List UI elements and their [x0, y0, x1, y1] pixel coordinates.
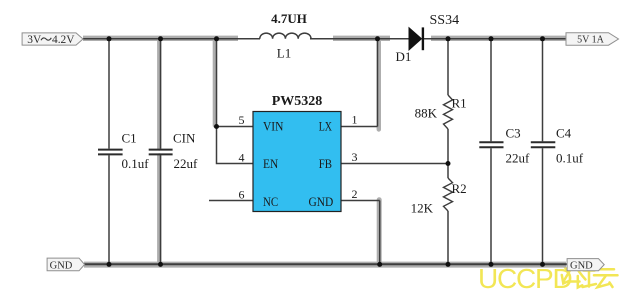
wire NC stub pin 6: [209, 200, 253, 202]
node IC GND bottom: [377, 262, 382, 267]
wire between R1 and R2: [447, 129, 449, 178]
node C3 bottom: [489, 262, 494, 267]
wire CIN vertical grey upper: [157, 39, 161, 149]
diode D1: [409, 28, 422, 50]
node CIN top: [158, 36, 163, 41]
node D1 cathode: [446, 36, 451, 41]
svg-text:PW5328: PW5328: [272, 94, 323, 109]
node C1 top: [107, 36, 112, 41]
wire EN: down from VIN junction then right to pin 4: [217, 127, 254, 164]
svg-text:SS34: SS34: [430, 13, 460, 28]
wire GND pin vertical grey: [377, 200, 382, 264]
wire LX vertical grey: [377, 39, 381, 130]
svg-text:5: 5: [239, 113, 245, 127]
wire top rail dark: D1 cathode to 5V tag: [423, 38, 567, 40]
wire top rail dark: L1 to D1 anode: [310, 38, 409, 40]
node CIN bottom: [158, 262, 163, 267]
wire CIN vertical lower dark: [160, 155, 162, 264]
svg-text:4.7UH: 4.7UH: [271, 11, 307, 26]
node C4 bottom: [540, 262, 545, 267]
svg-text:EN: EN: [263, 156, 279, 171]
svg-text:22uf: 22uf: [174, 156, 199, 171]
svg-text:R1: R1: [452, 96, 467, 111]
wire top rail dark: tag to L1: [83, 38, 260, 40]
node C1 bottom: [107, 262, 112, 267]
wire CIN vertical upper dark: [160, 39, 162, 149]
wire VIN horizontal to pin 5: [217, 126, 254, 128]
svg-text:GND: GND: [570, 261, 593, 272]
wire GND pin vertical dark: [379, 201, 381, 265]
wire VIN vertical dark: [216, 39, 218, 127]
capacitor C1: [98, 150, 123, 155]
node FB divider junction: [446, 161, 451, 166]
svg-text:R2: R2: [452, 181, 467, 196]
wire top rail grey right (D1 to 5V tag): [431, 36, 566, 41]
论 roof: [564, 263, 586, 281]
wire bottom rail grey: [84, 262, 566, 268]
svg-text:2: 2: [352, 187, 358, 201]
capacitor CIN: [149, 150, 173, 155]
svg-text:CIN: CIN: [173, 131, 196, 146]
port tag 5V 1A: [566, 33, 619, 46]
port tag GND left: [47, 258, 85, 271]
port tag GND right: [567, 259, 604, 272]
wire bottom rail dark: [84, 263, 567, 265]
svg-text:C4: C4: [556, 126, 572, 141]
svg-text:LX: LX: [319, 118, 333, 133]
resistor R1: [444, 95, 453, 129]
dark wires: [83, 39, 567, 265]
wire C4 vertical upper: [542, 39, 544, 142]
net highlight (grey) segments: [83, 38, 566, 264]
wire C3 vertical lower: [490, 148, 492, 264]
svg-text:4.2V: 4.2V: [52, 34, 75, 46]
node VIN-EN junction: [214, 124, 219, 129]
svg-text:3: 3: [352, 150, 358, 164]
watermark UCCPD论坛: [478, 263, 618, 290]
wire top rail grey left: [83, 36, 238, 41]
IC U1 PW5328: [253, 112, 341, 212]
svg-text:0.1uf: 0.1uf: [122, 156, 150, 171]
wire below R2: [447, 211, 449, 265]
node C4 top: [540, 36, 545, 41]
node VIN top: [214, 36, 219, 41]
svg-text:VIN: VIN: [263, 118, 284, 133]
svg-text:1: 1: [352, 113, 358, 127]
svg-text:NC: NC: [263, 194, 278, 209]
wire C3 vertical upper: [490, 39, 492, 142]
node LX top: [375, 36, 380, 41]
svg-text:0.1uf: 0.1uf: [556, 151, 584, 166]
论 radical vertical-hook: [562, 275, 569, 284]
node R2 bottom: [446, 262, 451, 267]
svg-text:3V: 3V: [27, 34, 42, 46]
svg-text:4: 4: [239, 150, 245, 164]
wire CIN vertical grey lower: [157, 156, 161, 265]
wire GND pin 2 horizontal: [341, 200, 380, 202]
svg-text:GND: GND: [50, 260, 73, 271]
坛 top bars: [594, 269, 618, 275]
wire C4 vertical lower: [542, 148, 544, 264]
inductor L1: [260, 33, 311, 39]
wire VIN vertical grey: [213, 39, 217, 126]
wire C1 vertical upper: [108, 39, 110, 149]
capacitor C4: [531, 142, 556, 147]
wire FB pin 3 to divider junction: [341, 163, 448, 165]
svg-text:FB: FB: [319, 156, 333, 171]
svg-text:C3: C3: [506, 126, 521, 141]
wire LX pin 1 horizontal: [341, 126, 378, 128]
svg-text:22uf: 22uf: [506, 151, 531, 166]
svg-text:6: 6: [239, 187, 245, 201]
svg-text:GND: GND: [309, 194, 334, 209]
论 radical dot: [564, 266, 568, 271]
svg-text:C1: C1: [122, 131, 137, 146]
wire R branch top: [447, 39, 449, 95]
svg-text:88K: 88K: [415, 106, 438, 121]
wire top rail grey mid (L1 to D1): [333, 36, 390, 41]
capacitor C3: [479, 142, 503, 147]
port tag 3V~4.2V: [22, 33, 83, 46]
坛 bottom: [598, 276, 613, 287]
论 bar: [569, 280, 580, 283]
svg-text:5V 1A: 5V 1A: [577, 34, 605, 45]
wire LX vertical dark: [377, 39, 379, 127]
论 hook: [578, 276, 583, 288]
node C3 top: [489, 36, 494, 41]
wire C1 vertical lower: [108, 155, 110, 264]
svg-text:L1: L1: [277, 46, 291, 61]
svg-text:12K: 12K: [411, 201, 434, 216]
坛 earth radical: [583, 266, 597, 287]
svg-text:D1: D1: [396, 49, 412, 64]
resistor R2: [444, 178, 453, 211]
